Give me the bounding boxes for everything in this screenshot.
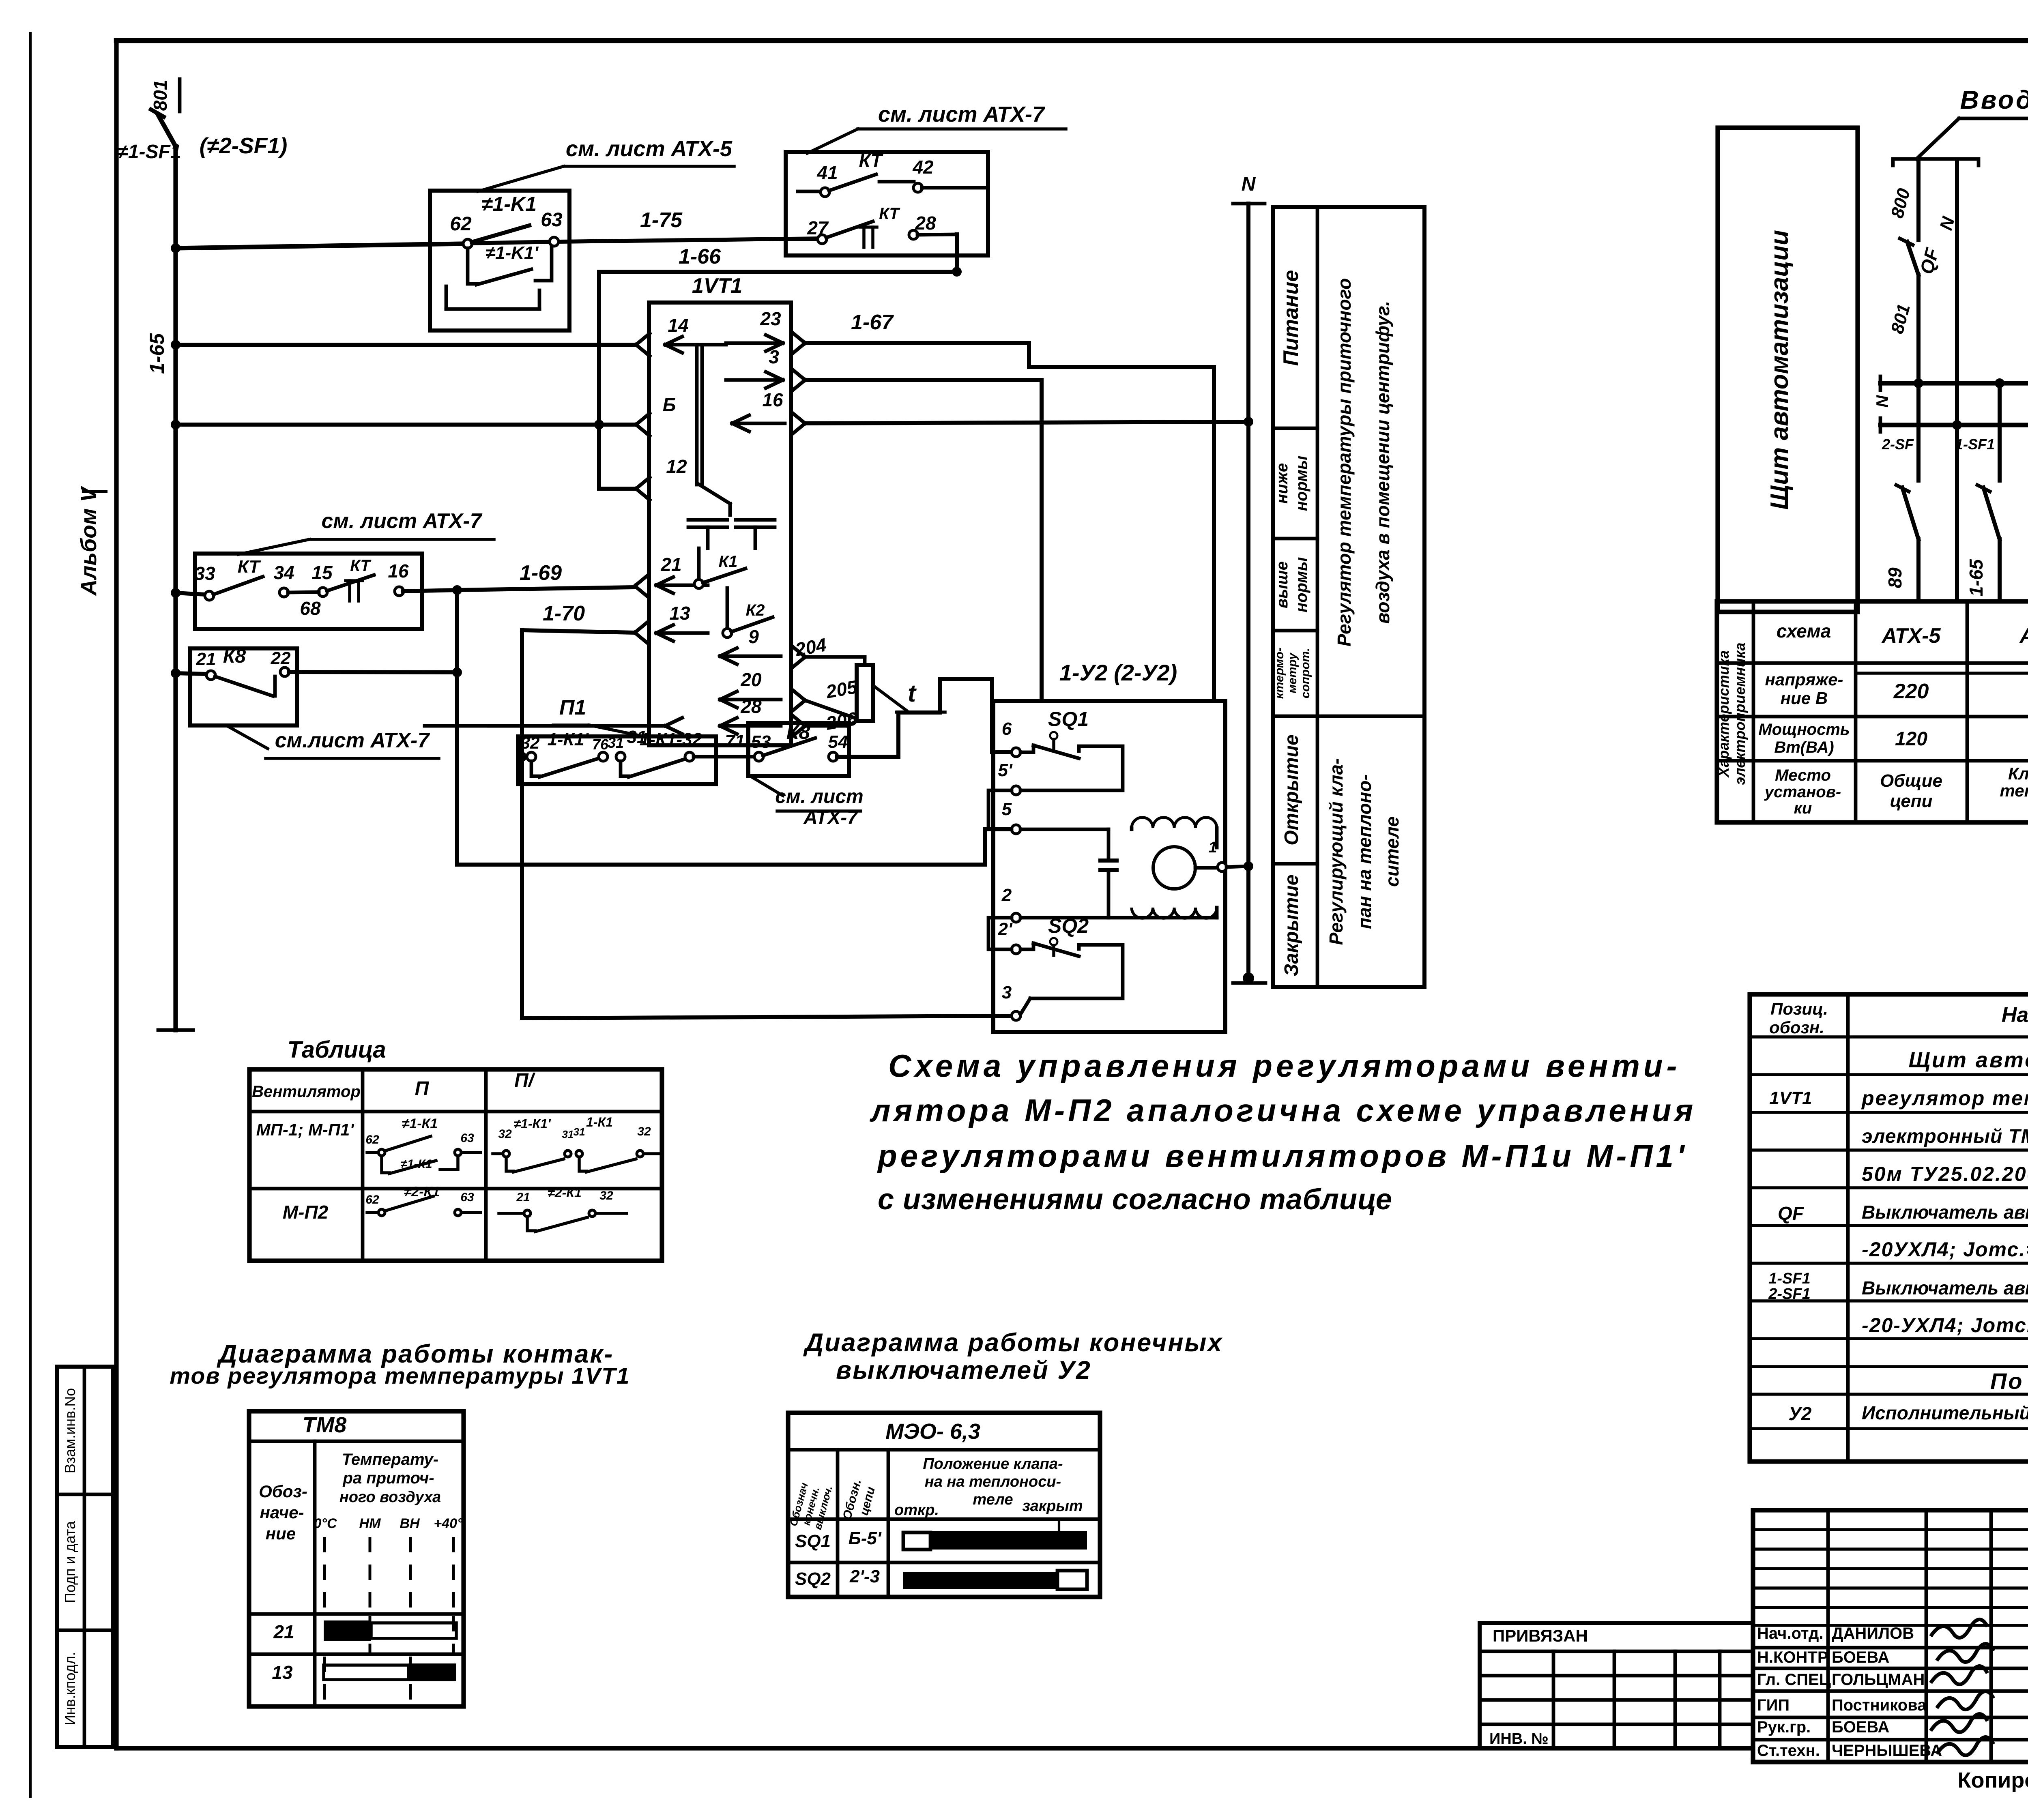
svg-text:регулятор температуры микро-: регулятор температуры микро- [1861, 1087, 2028, 1110]
svg-text:По месту: По месту [1990, 1368, 2028, 1394]
svg-text:К2: К2 [746, 601, 765, 619]
svg-text:32: 32 [637, 1125, 651, 1138]
svg-text:62: 62 [365, 1133, 379, 1146]
svg-text:Мощность: Мощность [1758, 721, 1850, 738]
svg-text:3: 3 [769, 346, 779, 367]
svg-text:ра приточ-: ра приточ- [342, 1469, 434, 1487]
svg-text:71: 71 [725, 731, 745, 751]
svg-text:нормы: нормы [1293, 557, 1310, 612]
svg-text:обозн.: обозн. [1769, 1018, 1824, 1037]
svg-text:1-70: 1-70 [543, 602, 585, 625]
svg-text:QF: QF [1916, 245, 1943, 276]
svg-text:ГИП: ГИП [1757, 1696, 1790, 1714]
svg-text:см. лист АТХ-5: см. лист АТХ-5 [566, 137, 733, 161]
svg-text:П1: П1 [559, 696, 586, 719]
svg-text:Ст.техн.: Ст.техн. [1757, 1742, 1820, 1760]
svg-text:≠1-К1': ≠1-К1' [400, 1157, 435, 1171]
svg-text:с изменениями согласно табл: с изменениями согласно таблице [878, 1183, 1392, 1216]
svg-text:П: П [415, 1078, 430, 1099]
svg-text:Н.КОНТР.: Н.КОНТР. [1757, 1648, 1830, 1666]
svg-text:-20-УХЛ4; Jотс.= 1,3 Jн; Jн =: -20-УХЛ4; Jотс.= 1,3 Jн; Jн = 1А [1862, 1314, 2028, 1337]
svg-text:установ-: установ- [1764, 783, 1841, 801]
svg-text:нормы: нормы [1293, 456, 1310, 511]
svg-text:13: 13 [669, 603, 690, 624]
svg-text:16: 16 [388, 560, 409, 582]
svg-text:(≠2-SF1): (≠2-SF1) [200, 133, 288, 158]
svg-text:1VТ1: 1VТ1 [1769, 1088, 1812, 1108]
svg-text:≠2-К1: ≠2-К1 [548, 1185, 581, 1200]
svg-text:Альбом V: Альбом V [76, 485, 101, 596]
svg-text:≠1-К1': ≠1-К1' [513, 1116, 551, 1131]
svg-text:68: 68 [300, 598, 321, 619]
svg-text:Инв.кподл.: Инв.кподл. [62, 1652, 78, 1725]
svg-text:5: 5 [1002, 799, 1012, 819]
svg-text:К8: К8 [786, 721, 810, 743]
svg-text:ние В: ние В [1781, 689, 1828, 708]
svg-text:12: 12 [666, 456, 687, 477]
svg-text:Питание: Питание [1279, 270, 1303, 366]
svg-text:Щит автоматизации: Щит автоматизации [1908, 1048, 2028, 1072]
svg-text:У2: У2 [1789, 1403, 1812, 1424]
svg-text:выключателей У2: выключателей У2 [836, 1356, 1091, 1384]
svg-text:на на теплоноси-: на на теплоноси- [925, 1473, 1061, 1490]
svg-text:50м ТУ25.02.200.175.82.: 50м ТУ25.02.200.175.82. [1862, 1163, 2028, 1185]
svg-text:воздуха в помещении центрифуг.: воздуха в помещении центрифуг. [1372, 301, 1393, 624]
svg-text:БОЕВА: БОЕВА [1832, 1718, 1889, 1736]
svg-text:ТМ8: ТМ8 [303, 1413, 347, 1437]
svg-text:Обоз-: Обоз- [259, 1482, 307, 1501]
svg-text:2: 2 [1001, 885, 1012, 905]
svg-text:20: 20 [740, 669, 762, 690]
svg-text:+40°: +40° [434, 1516, 463, 1531]
svg-text:Диаграмма работы конечных: Диаграмма работы конечных [803, 1329, 1223, 1357]
svg-text:Нач.отд.: Нач.отд. [1757, 1625, 1823, 1642]
svg-text:ниже: ниже [1273, 463, 1291, 504]
svg-text:≠1-SF1: ≠1-SF1 [117, 141, 181, 163]
svg-text:КТ: КТ [238, 557, 261, 577]
svg-text:напряже-: напряже- [1765, 670, 1843, 689]
svg-text:ного воздуха: ного воздуха [339, 1489, 441, 1506]
svg-text:34: 34 [273, 562, 294, 583]
svg-text:t: t [908, 680, 917, 707]
svg-text:28: 28 [915, 212, 936, 234]
svg-text:2'-3: 2'-3 [849, 1567, 880, 1586]
svg-text:120: 120 [1895, 728, 1927, 750]
svg-text:801: 801 [150, 80, 171, 111]
svg-text:наче-: наче- [260, 1503, 304, 1522]
svg-text:42: 42 [912, 157, 934, 178]
svg-text:89: 89 [1884, 567, 1906, 588]
svg-text:откр.: откр. [894, 1502, 939, 1519]
svg-text:41: 41 [816, 162, 838, 183]
svg-text:220: 220 [1893, 680, 1929, 703]
svg-text:КТ: КТ [350, 557, 372, 575]
svg-text:электроприемника: электроприемника [1732, 642, 1748, 785]
svg-text:53: 53 [751, 732, 771, 752]
svg-text:1-К1': 1-К1' [547, 730, 589, 749]
svg-text:205: 205 [824, 676, 859, 702]
svg-text:Место: Место [1775, 766, 1831, 784]
svg-text:23: 23 [760, 308, 781, 329]
svg-text:31: 31 [608, 734, 624, 751]
svg-text:63: 63 [541, 209, 563, 231]
svg-text:КТ: КТ [879, 205, 900, 223]
svg-text:Подп и дата: Подп и дата [62, 1521, 78, 1603]
svg-text:Рук.гр.: Рук.гр. [1757, 1718, 1811, 1736]
svg-text:Таблица: Таблица [287, 1037, 386, 1063]
svg-text:выше: выше [1273, 561, 1291, 608]
svg-text:1-66: 1-66 [679, 245, 721, 268]
svg-text:Закрытие: Закрытие [1281, 875, 1302, 977]
svg-text:1-65: 1-65 [146, 333, 168, 374]
svg-text:63: 63 [460, 1191, 474, 1204]
svg-text:КТ: КТ [859, 150, 884, 171]
svg-text:регуляторами вентиляторов: регуляторами вентиляторов М-П1и М-П1' [877, 1138, 1687, 1174]
svg-text:N: N [1873, 395, 1892, 408]
svg-text:QF: QF [1778, 1203, 1805, 1224]
svg-text:-20УХЛ4; Jотс.=13 Jн ; Jн = 4А: -20УХЛ4; Jотс.=13 Jн ; Jн = 4А [1862, 1238, 2028, 1261]
svg-text:АТХ-Б: АТХ-Б [2019, 624, 2028, 648]
svg-text:15: 15 [312, 562, 333, 583]
svg-text:76: 76 [592, 736, 609, 753]
svg-text:Общие: Общие [1880, 771, 1942, 791]
svg-text:1-75: 1-75 [640, 208, 683, 232]
svg-text:800: 800 [1887, 186, 1914, 220]
svg-text:1-К1-32: 1-К1-32 [640, 730, 702, 749]
svg-text:Постникова: Постникова [1832, 1696, 1927, 1714]
svg-text:63: 63 [460, 1131, 474, 1145]
svg-text:1-69: 1-69 [520, 561, 562, 585]
svg-text:Температу-: Температу- [342, 1451, 438, 1468]
svg-text:М-П2: М-П2 [283, 1202, 329, 1223]
svg-text:сопрот.: сопрот. [1299, 648, 1312, 699]
svg-text:К8: К8 [223, 646, 246, 667]
svg-text:1-67: 1-67 [851, 311, 894, 334]
svg-text:5': 5' [998, 760, 1013, 780]
svg-text:2': 2' [998, 919, 1013, 939]
svg-text:лятора М-П2 апалогична схеме: лятора М-П2 апалогична схеме управления [869, 1092, 1696, 1128]
svg-text:Наименование: Наименование [2002, 1003, 2028, 1027]
svg-text:теплоноси-: теплоноси- [2000, 781, 2028, 800]
svg-text:206: 206 [824, 708, 859, 734]
svg-text:801: 801 [1887, 302, 1914, 336]
svg-text:Клапан на: Клапан на [2008, 764, 2028, 783]
svg-text:ИНВ. №: ИНВ. № [1489, 1730, 1549, 1747]
svg-text:Вт(ВА): Вт(ВА) [1774, 738, 1834, 756]
svg-text:АТХ-5: АТХ-5 [1881, 624, 1941, 648]
svg-text:ктермо-: ктермо- [1273, 648, 1286, 699]
svg-text:П/: П/ [514, 1070, 536, 1091]
svg-text:0°C: 0°C [314, 1516, 337, 1531]
svg-text:32: 32 [498, 1127, 512, 1141]
svg-text:см. лист АТХ-7: см. лист АТХ-7 [322, 509, 483, 533]
svg-text:см. лист АТХ-7: см. лист АТХ-7 [878, 102, 1046, 127]
svg-text:28: 28 [740, 696, 762, 717]
svg-text:1-SF1: 1-SF1 [1768, 1270, 1810, 1287]
svg-text:Щит автоматизации: Щит автоматизации [1766, 230, 1794, 510]
svg-text:ПРИВЯЗАН: ПРИВЯЗАН [1493, 1626, 1588, 1645]
svg-text:Вентилятор: Вентилятор [252, 1083, 361, 1101]
svg-text:тов регулятора температуры 1VТ: тов регулятора температуры 1VТ1 [170, 1363, 630, 1389]
svg-text:Положение клапа-: Положение клапа- [923, 1455, 1063, 1472]
svg-text:ки: ки [1794, 799, 1812, 817]
svg-text:Открытие: Открытие [1281, 734, 1302, 845]
svg-text:62: 62 [365, 1193, 379, 1206]
svg-text:33: 33 [194, 563, 215, 584]
svg-text:цепи: цепи [1890, 791, 1933, 811]
svg-text:31: 31 [574, 1126, 585, 1138]
svg-text:см.лист АТХ-7: см.лист АТХ-7 [275, 729, 430, 752]
svg-text:21: 21 [660, 554, 681, 575]
svg-text:Регулятор температуры приточно: Регулятор температуры приточного [1334, 278, 1355, 646]
svg-text:SQ1: SQ1 [1048, 708, 1089, 730]
svg-text:N: N [1242, 174, 1256, 195]
svg-text:Б: Б [663, 394, 676, 415]
svg-text:сителе: сителе [1381, 816, 1403, 887]
svg-text:К1: К1 [719, 553, 738, 571]
svg-text:1-SF1: 1-SF1 [1955, 436, 1995, 453]
svg-text:ВН: ВН [400, 1516, 420, 1531]
svg-text:22: 22 [271, 648, 291, 668]
svg-text:≠1-К1: ≠1-К1 [402, 1116, 438, 1131]
svg-text:БОЕВА: БОЕВА [1832, 1648, 1889, 1666]
svg-text:Характеристика: Характеристика [1715, 650, 1732, 778]
svg-text:теле: теле [973, 1491, 1013, 1508]
svg-text:Б-5': Б-5' [849, 1528, 882, 1548]
svg-text:9: 9 [748, 626, 759, 647]
svg-text:пан на теплоно-: пан на теплоно- [1354, 774, 1375, 929]
svg-text:Обозн.: Обозн. [840, 1478, 864, 1521]
svg-text:ние: ние [266, 1524, 296, 1543]
svg-text:Ввод питания ~220В S=1кВА: Ввод питания ~220В S=1кВА [1960, 85, 2028, 114]
svg-text:54: 54 [828, 732, 848, 752]
svg-text:1-К1: 1-К1 [586, 1115, 613, 1129]
svg-text:13: 13 [272, 1662, 293, 1683]
svg-text:6: 6 [1002, 719, 1012, 739]
svg-text:Схема управления регулятора: Схема управления регуляторами венти- [888, 1048, 1680, 1084]
svg-text:1-65: 1-65 [1966, 559, 1987, 597]
svg-text:32: 32 [599, 1189, 613, 1202]
svg-text:32: 32 [521, 733, 540, 752]
svg-text:закрыт: закрыт [1022, 1498, 1083, 1515]
svg-text:схема: схема [1777, 620, 1831, 642]
svg-text:1: 1 [1208, 839, 1217, 856]
svg-text:21: 21 [273, 1621, 294, 1642]
svg-text:1-У2 (2-У2): 1-У2 (2-У2) [1059, 660, 1177, 685]
svg-text:метру: метру [1286, 652, 1299, 693]
svg-text:ДАНИЛОВ: ДАНИЛОВ [1832, 1625, 1914, 1642]
svg-text:Копировал: Антипова: Копировал: Антипова [1958, 1768, 2028, 1792]
svg-text:Исполнительный механизм МЭО~22: Исполнительный механизм МЭО~220В [1862, 1402, 2028, 1423]
svg-text:Регулирующий кла-: Регулирующий кла- [1326, 758, 1347, 945]
svg-text:14: 14 [668, 315, 688, 336]
svg-text:Выключатель автоматический ВА1: Выключатель автоматический ВА14-26-14- [1862, 1202, 2028, 1223]
svg-text:МЭО- 6,3: МЭО- 6,3 [885, 1419, 980, 1444]
svg-text:2-SF: 2-SF [1882, 436, 1914, 453]
svg-text:Взам.инв.No: Взам.инв.No [62, 1388, 78, 1473]
svg-text:16: 16 [762, 389, 783, 410]
svg-text:≠1-K1: ≠1-K1 [481, 193, 537, 215]
svg-text:электронный ТМ8~220В 0°С ÷ +40: электронный ТМ8~220В 0°С ÷ +40°С, [1862, 1126, 2028, 1147]
svg-text:1VT1: 1VT1 [692, 274, 742, 298]
svg-text:SQ2: SQ2 [795, 1569, 831, 1589]
svg-text:ЧЕРНЫШЕВА: ЧЕРНЫШЕВА [1832, 1742, 1942, 1760]
svg-text:21: 21 [516, 1191, 530, 1204]
svg-text:31: 31 [562, 1128, 574, 1140]
svg-text:≠1-K1': ≠1-K1' [486, 243, 539, 263]
svg-text:Гл. СПЕЦ: Гл. СПЕЦ [1757, 1671, 1831, 1689]
svg-text:ГОЛЬЦМАН: ГОЛЬЦМАН [1832, 1671, 1925, 1689]
svg-text:Выключатель автоматический ВА1: Выключатель автоматический ВА14-26-14- [1862, 1277, 2028, 1298]
svg-text:Позиц.: Позиц. [1770, 999, 1828, 1018]
svg-text:SQ1: SQ1 [795, 1531, 831, 1551]
svg-text:МП-1; М-П1': МП-1; М-П1' [256, 1120, 355, 1139]
svg-text:21: 21 [196, 649, 216, 669]
svg-text:3: 3 [1002, 983, 1012, 1002]
svg-text:2-SF1: 2-SF1 [1768, 1286, 1810, 1303]
svg-text:62: 62 [450, 213, 472, 235]
svg-text:НМ: НМ [359, 1516, 381, 1531]
svg-text:см. лист: см. лист [775, 786, 863, 807]
